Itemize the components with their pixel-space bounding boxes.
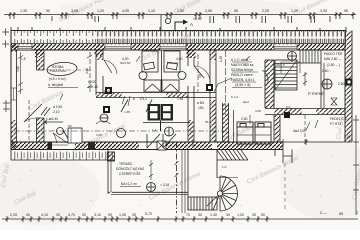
- svg-text:TERASZ: TERASZ: [119, 162, 132, 166]
- svg-text:MIN 2,60 ↔: MIN 2,60 ↔: [324, 57, 342, 61]
- svg-text:≠ 2,2: ≠ 2,2: [140, 97, 147, 101]
- svg-text:FT HTJ: FT HTJ: [330, 122, 341, 126]
- svg-text:élm 15: élm 15: [88, 85, 98, 89]
- svg-text:85: 85: [205, 120, 209, 124]
- svg-text:NΔ×1,2 m²: NΔ×1,2 m²: [121, 182, 138, 186]
- svg-text:1,35: 1,35: [20, 9, 27, 13]
- svg-text:4,05: 4,05: [255, 109, 261, 113]
- svg-text:a: a: [104, 105, 106, 109]
- svg-text:30: 30: [226, 213, 230, 217]
- svg-text:3,04: 3,04: [344, 135, 351, 139]
- svg-text:a 80/: a 80/: [197, 101, 204, 105]
- svg-text:A: felújított: A: felújított: [48, 83, 63, 87]
- svg-text:2,60: 2,60: [338, 82, 345, 86]
- svg-text:90: 90: [46, 9, 50, 13]
- svg-text:90: 90: [192, 143, 196, 147]
- svg-text:PADLÓVAL: PADLÓVAL: [50, 68, 67, 73]
- svg-text:3,10: 3,10: [94, 213, 101, 217]
- svg-text:PADLÓ csere: PADLÓ csere: [231, 72, 253, 77]
- svg-text:HASZN. 4,5×1: HASZN. 4,5×1: [231, 78, 254, 82]
- svg-text:n 45: n 45: [124, 110, 130, 114]
- svg-text:85: 85: [339, 212, 343, 216]
- svg-text:5,70: 5,70: [145, 212, 152, 216]
- svg-text:2,60 ↑: 2,60 ↑: [322, 69, 331, 73]
- svg-text:4,70: 4,70: [68, 213, 75, 217]
- svg-text:30: 30: [56, 213, 60, 217]
- svg-text:2,90: 2,90: [205, 9, 212, 13]
- svg-text:55: 55: [234, 9, 238, 13]
- svg-text:(4,5 × 5 m²): (4,5 × 5 m²): [49, 77, 66, 81]
- svg-text:30: 30: [198, 213, 202, 217]
- svg-text:1,10: 1,10: [148, 9, 155, 13]
- svg-text:90: 90: [108, 213, 112, 217]
- svg-text:±0,00: ±0,00: [88, 80, 96, 84]
- svg-text:70: 70: [186, 213, 190, 217]
- svg-text:14,6: 14,6: [104, 89, 110, 93]
- svg-text:30: 30: [252, 213, 256, 217]
- svg-text:4,6: 4,6: [198, 73, 202, 78]
- svg-text:lásd 3,09: lásd 3,09: [293, 129, 306, 133]
- svg-text:40: 40: [26, 213, 30, 217]
- svg-text:4,62: 4,62: [85, 68, 89, 74]
- svg-text:30: 30: [132, 213, 136, 217]
- svg-text:50: 50: [261, 213, 265, 217]
- svg-text:1,20: 1,20: [291, 9, 298, 13]
- svg-text:(2,60 ←): (2,60 ←): [327, 63, 340, 67]
- svg-text:(4,90 × 5): (4,90 × 5): [235, 83, 250, 87]
- svg-text:CSERÉP KŐR: CSERÉP KŐR: [119, 171, 141, 176]
- svg-text:= 3,34: = 3,34: [160, 183, 169, 187]
- svg-text:n 80: n 80: [177, 97, 183, 101]
- svg-text:30: 30: [82, 213, 86, 217]
- svg-text:2,25: 2,25: [10, 213, 17, 217]
- svg-text:2,05: 2,05: [262, 9, 269, 13]
- svg-text:lép: lép: [238, 147, 242, 151]
- svg-text:lásd: lásd: [243, 100, 249, 104]
- svg-text:1,40: 1,40: [210, 213, 217, 217]
- svg-text:4,10: 4,10: [41, 213, 48, 217]
- svg-text:a 0,90: a 0,90: [53, 105, 62, 109]
- svg-text:DÖNGÖLT AGYAG: DÖNGÖLT AGYAG: [116, 167, 145, 171]
- svg-text:90/1,5: 90/1,5: [276, 63, 285, 67]
- svg-text:90: 90: [68, 124, 72, 128]
- svg-text:1,05: 1,05: [119, 213, 126, 217]
- svg-text:1,4: 1,4: [152, 128, 157, 132]
- svg-text:1,50: 1,50: [177, 9, 184, 13]
- svg-text:1,35: 1,35: [219, 56, 223, 62]
- svg-text:30: 30: [30, 147, 34, 151]
- svg-text:1,20: 1,20: [97, 9, 104, 13]
- svg-text:K 2,1: K 2,1: [231, 95, 239, 99]
- svg-text:FEDEL C.Ö: FEDEL C.Ö: [330, 117, 348, 121]
- svg-text:NAGYOBB sz.: NAGYOBB sz.: [231, 63, 254, 67]
- svg-text:# 1 C oldal ~: # 1 C oldal ~: [231, 58, 251, 62]
- svg-text:PADLÓ TÉR: PADLÓ TÉR: [324, 51, 343, 56]
- svg-text:4,05: 4,05: [96, 133, 102, 137]
- svg-text:3,35: 3,35: [320, 9, 327, 13]
- svg-text:SZOBA felújít: SZOBA felújít: [231, 68, 253, 72]
- svg-text:4,05: 4,05: [122, 9, 129, 13]
- svg-text:1,5: 1,5: [21, 57, 26, 61]
- svg-text:190: 190: [198, 106, 204, 110]
- svg-text:2.—: 2.—: [320, 211, 327, 215]
- svg-text:1,20: 1,20: [237, 213, 244, 217]
- svg-text:A: A: [190, 22, 193, 27]
- svg-text:2,60: 2,60: [241, 117, 248, 121]
- svg-text:1,0: 1,0: [222, 165, 227, 169]
- svg-text:2,25: 2,25: [46, 117, 52, 121]
- svg-text:90/1,50: 90/1,50: [168, 61, 179, 65]
- svg-text:3,60: 3,60: [16, 66, 20, 72]
- svg-text:16,90: 16,90: [193, 17, 202, 21]
- svg-text:2,10: 2,10: [53, 110, 60, 114]
- svg-text:2,0: 2,0: [286, 105, 291, 109]
- svg-text:95: 95: [344, 9, 348, 13]
- svg-text:3,05: 3,05: [71, 9, 78, 13]
- svg-text:90/1,50: 90/1,50: [120, 61, 131, 65]
- svg-text:P.THENÉ: P.THENÉ: [308, 91, 324, 96]
